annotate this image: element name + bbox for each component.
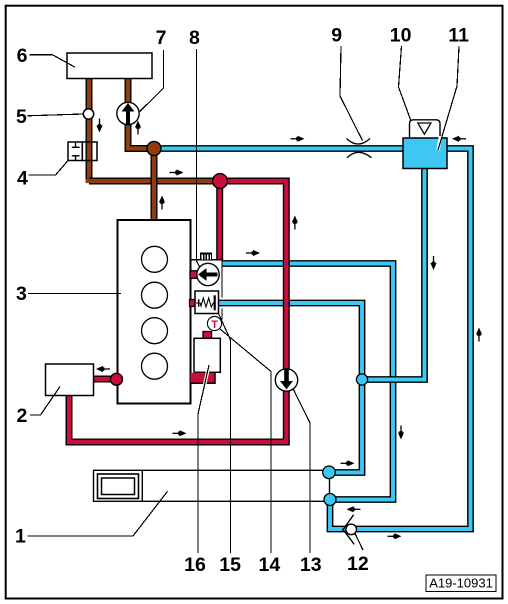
svg-text:7: 7 bbox=[156, 27, 167, 49]
radiator top-right blue dot bbox=[323, 466, 336, 479]
leader label 12 bbox=[355, 534, 363, 551]
flow arrow down (middle blue riser) bbox=[398, 426, 404, 440]
svg-text:14: 14 bbox=[259, 554, 281, 576]
flow arrow left (box2 stub) bbox=[96, 366, 110, 372]
heater core 6 bbox=[67, 53, 152, 79]
pump 7 bbox=[117, 102, 139, 124]
expansion tank 11 bbox=[403, 138, 447, 169]
leader label 14 bbox=[220, 329, 271, 553]
svg-text:12: 12 bbox=[347, 553, 369, 575]
svg-text:6: 6 bbox=[17, 45, 28, 67]
engine to pump8 red stub bbox=[190, 271, 198, 279]
pipe: tank outlet right, down, bottom return to radiator dot bbox=[330, 149, 471, 530]
leader label 1 bbox=[28, 491, 168, 536]
brown junction dot bbox=[147, 142, 161, 156]
restrictor 9 arcs bbox=[347, 139, 372, 158]
drawing number box bbox=[426, 575, 496, 592]
pipe: brown horizontal to crimson tee bbox=[86, 178, 222, 185]
pipe: pump8 outlet blue (right, down, to radiator bottom dot) bbox=[222, 264, 394, 500]
svg-text:1: 1 bbox=[15, 526, 26, 548]
temperature sensor 14 bbox=[207, 316, 221, 330]
pipe: box2 to engine stub bbox=[93, 376, 116, 383]
svg-text:T: T bbox=[211, 319, 218, 331]
pipe: crimson main loop tee-right-down-bottom-left-up to box2 bbox=[69, 181, 286, 442]
svg-text:13: 13 bbox=[300, 554, 322, 576]
svg-text:3: 3 bbox=[16, 283, 27, 305]
flow arrow up (outer return riser) bbox=[476, 328, 482, 342]
flow arrow right (bottom return) bbox=[388, 533, 402, 539]
svg-text:2: 2 bbox=[17, 405, 28, 427]
pipe: brown down into engine top bbox=[151, 145, 158, 221]
leader label 6 bbox=[30, 55, 76, 67]
radiator 1 body bbox=[94, 470, 330, 501]
flow arrow right (radiator top feed) bbox=[341, 460, 355, 466]
flow arrow left (right of tank) bbox=[452, 136, 466, 142]
expansion tank cap 10 bbox=[410, 120, 441, 138]
oil cooler 2 box bbox=[46, 364, 94, 396]
engine 3 block bbox=[118, 220, 191, 404]
flow arrow right (above brown horizontal) bbox=[170, 169, 184, 175]
flow arrow right (bottom crimson) bbox=[173, 430, 187, 436]
svg-text:9: 9 bbox=[331, 24, 342, 46]
radiator bottom-right blue dot bbox=[324, 494, 336, 506]
flow arrow up (beside brown engine feed) bbox=[159, 196, 165, 210]
flow arrow up (beside pump 7) bbox=[135, 121, 141, 135]
flow arrow right (top blue pipe) bbox=[291, 136, 305, 142]
blue junction dot (tank hose tee) bbox=[356, 374, 367, 385]
pipe: heater core left brown down through valve4 bbox=[86, 78, 93, 181]
leader label 10 bbox=[399, 46, 412, 121]
thermostat 15 box bbox=[195, 291, 219, 314]
red stub above oil cooler 16 bbox=[203, 332, 212, 339]
leader label 8 line bbox=[197, 49, 200, 267]
pipe: thermostat to radiator top dot blue bbox=[218, 303, 362, 473]
svg-text:11: 11 bbox=[448, 24, 469, 46]
crimson tee junction dot bbox=[213, 174, 228, 189]
leader label 11 bbox=[438, 46, 459, 150]
pipe: heater core right brown down through pump7 to tee bbox=[128, 78, 155, 149]
pump 13 bbox=[275, 369, 297, 391]
svg-text:15: 15 bbox=[219, 554, 241, 576]
svg-text:16: 16 bbox=[184, 554, 206, 576]
flow arrow left (below radiator bottom pipe) bbox=[347, 506, 361, 512]
crimson engine inlet dot bbox=[111, 373, 123, 385]
leader label 3 bbox=[28, 293, 121, 295]
pipe: top main blue to expansion tank bbox=[153, 145, 404, 152]
leader label 5 bbox=[28, 114, 84, 116]
flow arrow down (below bleeder 5) bbox=[96, 119, 102, 133]
leader label 9 bbox=[340, 46, 363, 141]
pipe: crimson from tee down to pump housing bbox=[216, 181, 223, 260]
cylinder 4 bbox=[142, 353, 168, 379]
cylinder 1 bbox=[142, 246, 168, 272]
valve 4 body bbox=[68, 142, 97, 161]
flow arrow right (pump8 outlet) bbox=[246, 250, 260, 256]
flow arrow down (tank bottom hose) bbox=[430, 256, 436, 270]
leader label 13 bbox=[293, 389, 310, 554]
svg-text:4: 4 bbox=[17, 168, 28, 190]
leader label 7 bbox=[140, 50, 164, 112]
pump housing top line bbox=[191, 259, 223, 261]
leader label 15 bbox=[219, 314, 231, 554]
cylinder 2 bbox=[142, 282, 168, 308]
svg-text:10: 10 bbox=[390, 24, 412, 46]
engine to thermostat red stub bbox=[190, 300, 197, 307]
electric pump grid symbol bbox=[200, 253, 212, 260]
flow arrow up (crimson riser) bbox=[292, 216, 298, 230]
pump 8 bbox=[197, 263, 219, 285]
leader label 2 bbox=[30, 387, 60, 416]
red elbow below oil cooler 16 bbox=[191, 373, 216, 384]
leader label 16 bbox=[198, 365, 209, 553]
svg-text:5: 5 bbox=[16, 106, 27, 128]
oil cooler 16 box bbox=[194, 338, 220, 372]
svg-text:8: 8 bbox=[189, 27, 200, 49]
svg-text:A19-10931: A19-10931 bbox=[429, 576, 493, 591]
bleeder circle 5 bbox=[83, 109, 93, 119]
pipe: expansion tank bottom hose (down, left to junction) bbox=[362, 168, 425, 380]
pump housing right line bbox=[221, 260, 223, 320]
check valve 12 bbox=[342, 515, 356, 545]
cylinder 3 bbox=[142, 318, 168, 344]
leader label 4 bbox=[29, 160, 69, 175]
